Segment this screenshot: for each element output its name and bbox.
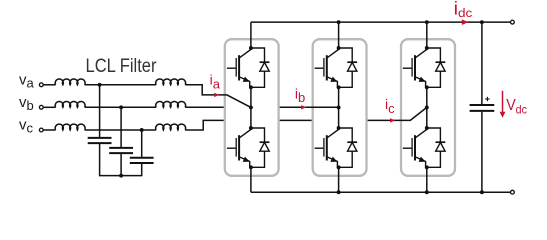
node: star point bbox=[119, 174, 123, 178]
module box leg a bbox=[225, 39, 279, 176]
node leg b top bbox=[337, 46, 341, 50]
wire cap c bottom bbox=[141, 163, 143, 176]
inductor L2c bbox=[156, 124, 186, 130]
node leg a lower-collector bbox=[249, 126, 253, 130]
capacitor Cdc plates bbox=[470, 105, 495, 111]
current arrow i_dc bbox=[462, 19, 469, 25]
inductor L1a bbox=[55, 79, 85, 85]
current arrow i_c bbox=[390, 118, 395, 122]
node leg a top bbox=[249, 46, 253, 50]
node leg b upper-emitter bbox=[337, 85, 341, 89]
svg-text:LCL Filter: LCL Filter bbox=[86, 56, 158, 77]
node leg c upper-emitter bbox=[425, 85, 429, 89]
wire cap stem b bbox=[120, 107, 122, 147]
node leg a upper-emitter bbox=[249, 85, 253, 89]
wire phase b to leg b (passes behind module a) bbox=[185, 106, 338, 108]
IGBT+diode leg c lower bbox=[403, 128, 446, 168]
inductor L1b bbox=[55, 101, 85, 107]
node leg b bottom bbox=[337, 165, 341, 169]
module box leg c bbox=[401, 39, 455, 176]
capacitor Cf c plates bbox=[130, 157, 154, 159]
wire DC+ rail bbox=[251, 21, 511, 23]
wire cap stem a bbox=[99, 85, 101, 137]
terminal DC- bbox=[511, 190, 515, 194]
current arrow i_b bbox=[301, 105, 306, 109]
IGBT+diode leg b upper bbox=[315, 48, 358, 88]
node rail- leg b bbox=[337, 190, 341, 194]
wire DC- rail bbox=[251, 191, 511, 193]
node leg b midpoint bbox=[337, 105, 341, 109]
node rail- cap bbox=[480, 190, 484, 194]
wire phase b inside module b bbox=[311, 106, 339, 108]
capacitor Cdc stem top bbox=[481, 22, 483, 104]
node leg b lower-collector bbox=[337, 126, 341, 130]
inductor L2a bbox=[156, 79, 186, 85]
terminal c bbox=[39, 128, 43, 132]
leg c vertical conductors bbox=[426, 22, 428, 192]
node leg c top bbox=[425, 46, 429, 50]
wire L1b to L2b bbox=[85, 106, 156, 108]
capacitor Cdc stem bottom bbox=[481, 112, 483, 193]
node leg a bottom bbox=[249, 165, 253, 169]
node rail- leg c bbox=[425, 190, 429, 194]
wire L1a to L2a bbox=[85, 84, 156, 86]
node: filter cap tap c bbox=[140, 128, 144, 132]
IGBT+diode leg c upper bbox=[403, 48, 446, 88]
inductor L2b bbox=[156, 101, 186, 107]
wire phase c to leg c (passes behind modules a,b) bbox=[185, 120, 410, 130]
node: filter cap tap b bbox=[119, 105, 123, 109]
leg b vertical conductors bbox=[338, 22, 340, 192]
wire L1c to L2c bbox=[85, 129, 156, 131]
wire phase c inside module c bbox=[400, 107, 427, 120]
inductor L1c bbox=[55, 124, 85, 130]
node leg c midpoint bbox=[425, 105, 429, 109]
wire cap b bottom bbox=[120, 153, 122, 176]
IGBT+diode leg a upper bbox=[227, 48, 270, 88]
Cdc plus sign bbox=[485, 97, 489, 101]
wire phase a jog and entry bbox=[185, 85, 251, 108]
IGBT+diode leg a lower bbox=[227, 128, 270, 168]
voltage arrow V_dc bbox=[500, 91, 506, 118]
node rail+ leg b bbox=[337, 20, 341, 24]
capacitor Cf b plates bbox=[109, 147, 133, 149]
capacitor Cf a plates bbox=[88, 137, 112, 139]
node: filter cap tap a bbox=[98, 83, 102, 87]
terminal a bbox=[39, 83, 43, 87]
IGBT+diode leg b lower bbox=[315, 128, 358, 168]
wire filter cap star point bbox=[99, 175, 142, 177]
node leg c lower-collector bbox=[425, 126, 429, 130]
node rail+ leg c bbox=[425, 20, 429, 24]
terminal DC+ bbox=[511, 20, 515, 24]
leg a vertical conductors bbox=[250, 22, 252, 192]
wire terminal c to L1c bbox=[43, 129, 55, 131]
current arrow i_a bbox=[214, 93, 219, 97]
node leg a midpoint bbox=[249, 105, 253, 109]
node leg c bottom bbox=[425, 165, 429, 169]
module box leg b bbox=[313, 39, 367, 176]
wire terminal a to L1a bbox=[43, 84, 55, 86]
node rail+ cap bbox=[480, 20, 484, 24]
terminal b bbox=[39, 105, 43, 109]
wire terminal b to L1b bbox=[43, 106, 55, 108]
wire cap a bottom bbox=[99, 143, 101, 176]
wire cap stem c bbox=[141, 130, 143, 157]
